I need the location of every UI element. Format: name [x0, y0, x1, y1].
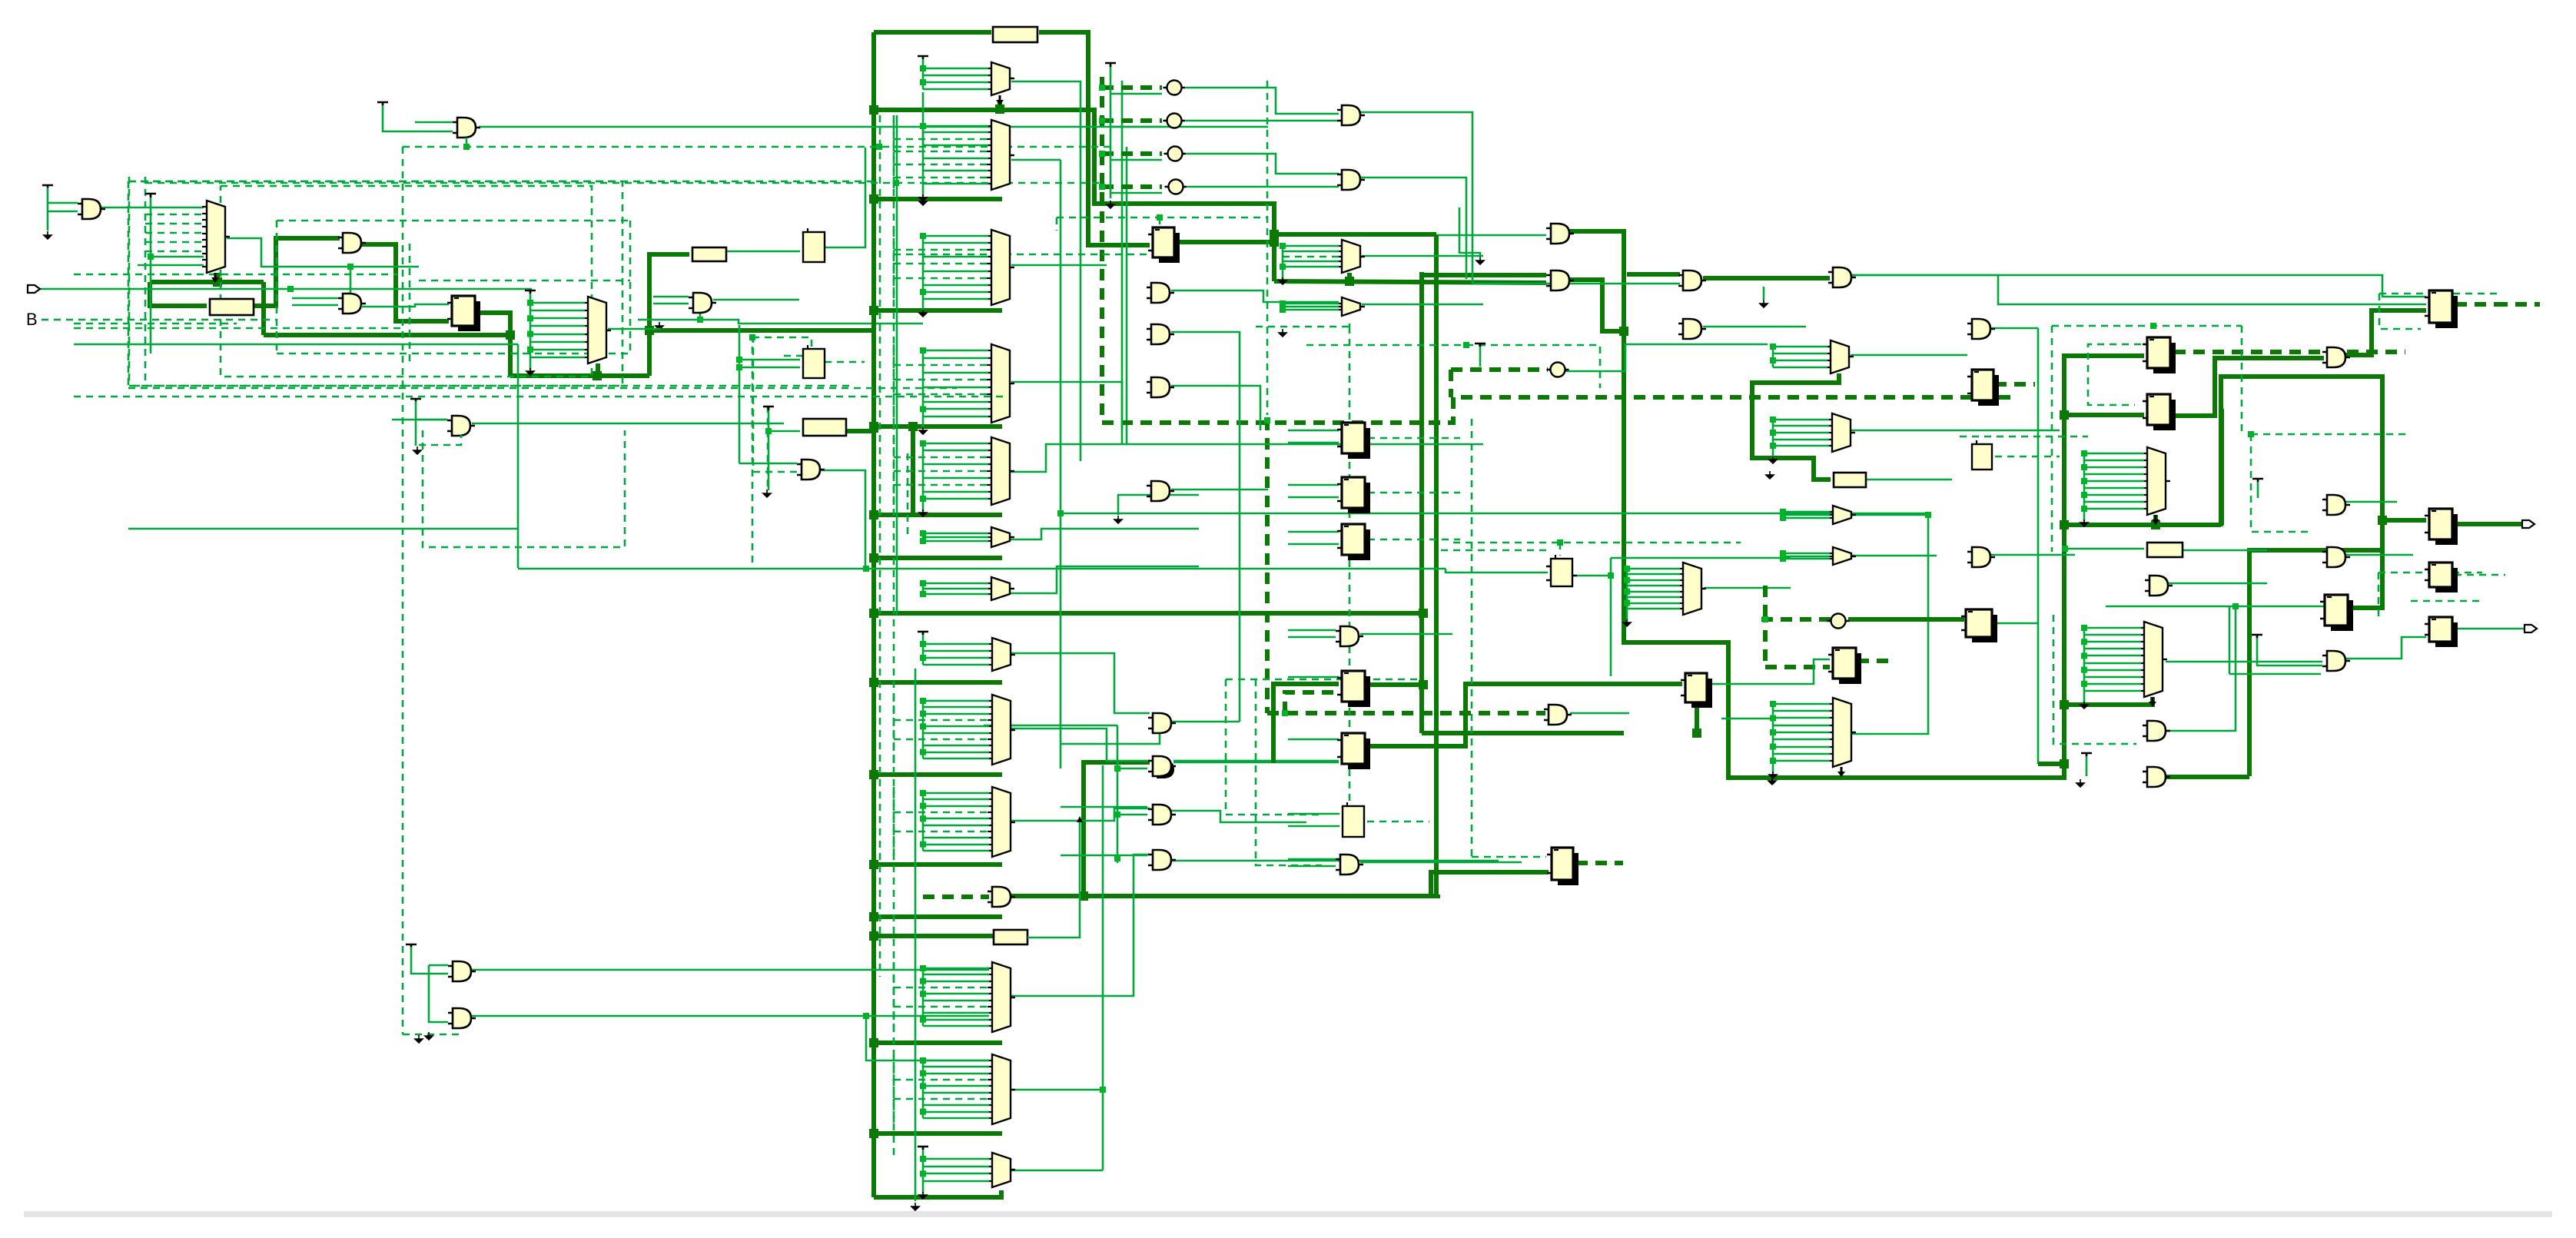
wire B4sq in2	[1288, 825, 1339, 828]
mux M21	[992, 962, 1011, 1032]
mux M14 input junction 1	[1780, 509, 1786, 515]
dashed F15 out	[1226, 679, 1420, 681]
mux M20 input stub 2	[923, 798, 989, 801]
junction spine M18	[869, 678, 878, 687]
junction M1 out drop	[347, 264, 354, 270]
mux M7 rail ground	[919, 509, 927, 516]
wire x2652 vertical	[2037, 328, 2040, 764]
dashed F6 drop	[1559, 543, 1562, 556]
bus spine branch to M4	[874, 197, 1002, 201]
mux M20 input junction 5	[920, 815, 926, 821]
mux M12 input junction 1	[1770, 344, 1776, 350]
wire G18 gnd spur	[1763, 287, 1765, 300]
buffer G2	[82, 199, 101, 219]
wire x2096	[1610, 558, 1612, 676]
mux M22 input rail	[922, 1060, 925, 1118]
dashed mid frame top	[277, 220, 630, 222]
mux M17 input stub 4	[2084, 473, 2144, 476]
mux M9 input rail	[922, 583, 925, 594]
mux M5 dashed rail	[893, 230, 895, 305]
wire y416 vert	[699, 307, 702, 320]
wire B3sq dash out	[1995, 456, 2060, 458]
bus spine branch to M6	[874, 424, 1002, 429]
mux M3 input stub 3	[923, 81, 988, 84]
dashed C5 frame	[1306, 345, 1600, 388]
wire G33 out	[1360, 861, 1522, 864]
wire y448 down	[517, 344, 520, 568]
mux M5 input stub 9	[923, 291, 988, 294]
wire M9 out	[1011, 566, 1199, 593]
mux M20 input stub 3	[923, 805, 989, 808]
mux M25 input stub 2	[2084, 634, 2141, 636]
thin G13 feed	[1360, 178, 1466, 279]
mux M6 rail ground	[919, 427, 927, 434]
wire F16 in2	[1288, 738, 1339, 741]
mux M21 input rail	[922, 968, 925, 1026]
wire x2901 vert	[2229, 606, 2231, 674]
dashed F17 in	[1472, 856, 1546, 858]
tie-high inverter rail	[1105, 63, 1116, 67]
mux M2 input stub 1	[530, 302, 585, 304]
mux M20 input junction 1	[920, 790, 926, 796]
wire M6 out	[1011, 382, 1122, 430]
bus spine bottom to M23	[874, 1190, 1001, 1197]
mux M5 input stub 3	[894, 249, 988, 251]
mux M4 rail ground	[919, 194, 927, 201]
mux M22 input stub 4	[894, 1079, 989, 1081]
bus spine branch y798 long	[874, 611, 1423, 616]
junction x1380	[1057, 510, 1064, 516]
dashed bus G25 in	[923, 894, 989, 899]
tie-high G37	[2252, 635, 2262, 639]
mux M7 input stub 9	[923, 498, 988, 500]
mux M24 input stub 8	[1773, 753, 1830, 755]
wire A4 tbar stem	[2257, 482, 2259, 498]
bus up to G27	[1084, 762, 1150, 896]
wire G14 in2 loop	[1459, 207, 1480, 256]
mux M21 dashed rail	[893, 962, 895, 1032]
mux M12 input stub 3	[1773, 360, 1827, 362]
wire G28 out	[1171, 811, 1306, 822]
wire G14 in	[1436, 234, 1546, 237]
wire F12 dash out	[2455, 574, 2505, 576]
wire G1 in2	[415, 121, 453, 124]
mux M4 input stub 5	[894, 151, 988, 153]
tie-high G5	[410, 399, 421, 403]
wire y740 long	[518, 568, 1446, 570]
wire M8 out	[1011, 529, 1199, 539]
mux M7 input stub 8	[923, 491, 988, 493]
dashed frame2	[221, 186, 592, 377]
mux M21 input stub 3	[923, 981, 989, 983]
mux M22 input stub 10	[923, 1117, 989, 1120]
dashed B2sq loop	[752, 337, 812, 356]
mux M15 input rail	[1782, 553, 1784, 559]
tie-high G30	[406, 944, 417, 948]
wire G19 out	[1990, 327, 2038, 330]
mux M25 input stub 6	[2084, 662, 2141, 665]
mux M9 input stub 3	[923, 593, 988, 596]
mux M25 input stub 4	[2084, 648, 2141, 650]
wire R7 out	[1027, 820, 1080, 938]
ground G2	[44, 231, 51, 239]
bus spine branch y141	[874, 110, 1274, 281]
junction spine y798	[869, 609, 878, 618]
wire G21 out	[2345, 501, 2397, 503]
wire M11 out	[1362, 304, 1483, 306]
mux M2	[588, 297, 606, 363]
mux M2 input stub 6	[530, 341, 585, 344]
ground M12 path	[1766, 471, 1774, 479]
junction M24 out	[1925, 512, 1931, 518]
bus x2890	[2221, 377, 2426, 526]
ground inverter rail	[1107, 201, 1114, 208]
wire x962 vertical	[739, 325, 741, 463]
bus net n1 main horizontal	[264, 333, 510, 337]
mux M4 input junction 1	[920, 123, 926, 129]
mux M17 input stub 5	[2084, 480, 2144, 483]
wire G17 out	[1703, 326, 1806, 328]
buffer G1	[457, 118, 476, 138]
junction F15 out	[1419, 680, 1428, 689]
buffer G9	[1151, 377, 1170, 397]
mux M11 input stub 3	[1283, 309, 1339, 311]
mux M3 input junction 3	[920, 79, 926, 85]
mux M25 rail ground	[2080, 702, 2088, 709]
junction spine R4	[869, 423, 878, 433]
mux M10 input junction 5	[1280, 264, 1286, 270]
bus M3 stub	[998, 102, 1002, 110]
buffer G36	[2147, 767, 2166, 787]
mux M5 input stub 8	[923, 284, 988, 287]
mux M2 rail ground	[526, 368, 534, 375]
dashed long x524	[402, 147, 404, 1034]
junction spine M21	[869, 1038, 878, 1047]
box U3	[1972, 444, 1992, 470]
bus F11 out	[2456, 522, 2522, 526]
mux M5 input stub 5	[894, 263, 988, 265]
mux M4 input stub 2	[923, 131, 988, 134]
bus spine branch to M21	[874, 1041, 1002, 1045]
wire M20 out	[1011, 808, 1150, 821]
mux M9	[991, 577, 1010, 600]
junction F6 frame	[1557, 539, 1563, 546]
wire F4 in2	[1288, 496, 1339, 499]
block R6	[2147, 543, 2183, 557]
bus branch F10 in	[2064, 413, 2144, 417]
wire G31 link	[866, 1016, 989, 1060]
wire y726	[1611, 557, 1791, 559]
mux M2 input stub 2	[530, 310, 585, 312]
dashed x2672	[2053, 615, 2136, 744]
wire G11 out	[1171, 489, 1268, 491]
wire B dashed	[41, 319, 277, 321]
dashed bus inverter tap 1	[1102, 85, 1162, 90]
mux M20 input junction 3	[920, 803, 926, 809]
mux M16 input rail	[1626, 569, 1628, 621]
mux M22	[992, 1054, 1011, 1124]
mux M4 input rail	[922, 126, 925, 196]
wire G6 in	[653, 296, 689, 298]
wire G29 out	[1171, 860, 1499, 862]
bus G15 out	[1569, 280, 1624, 331]
mux M4	[991, 120, 1010, 190]
wire G2 in2	[48, 211, 78, 213]
junction F2 out	[1270, 237, 1279, 247]
wire G26 in2	[1061, 732, 1160, 744]
bus G20 to F7	[2345, 310, 2426, 355]
mux M13 input stub 2	[1773, 425, 1829, 427]
block R2	[993, 27, 1037, 42]
mux M12	[1831, 340, 1849, 373]
buffer G17	[1683, 319, 1701, 339]
mux M17 input stub 2	[2084, 460, 2144, 462]
wire M25 out	[2166, 661, 2322, 663]
mux M17 input stub 6	[2084, 487, 2144, 490]
bus R4 out	[846, 429, 874, 433]
bus G36 out	[2166, 775, 2249, 779]
ground M10 rail	[1279, 329, 1286, 337]
wire y789 long	[2106, 606, 2325, 608]
junction x2652 tail	[2060, 759, 2069, 768]
junction dash y191	[876, 144, 882, 150]
wire x1435 vertical	[1102, 765, 1104, 1170]
box U2	[803, 349, 825, 378]
mux M24 input junction 1	[1770, 701, 1776, 707]
junction D net	[287, 286, 294, 292]
bus F1 out	[480, 313, 510, 335]
block R3	[692, 247, 726, 261]
mux M1 dashed input 2	[145, 223, 204, 225]
mux M3 input stub 2	[923, 75, 988, 77]
mux M5 input stub 1	[923, 235, 988, 237]
mux M4 input stub 7	[894, 164, 988, 166]
mux M22 input stub 3	[923, 1073, 989, 1075]
mux M18 rail tie-high	[918, 632, 928, 635]
mux M14 input stub 3	[1783, 517, 1830, 519]
mux M1 dashed input 1	[145, 214, 204, 216]
wire M24 stub long	[1721, 718, 1773, 720]
junction spine M5	[869, 306, 878, 315]
mux M24 input junction 7	[1770, 744, 1776, 750]
mux M10 input rail	[1282, 246, 1284, 279]
bus branch M25 bottom	[2064, 697, 2153, 705]
ground spine bottom	[911, 1203, 919, 1210]
wire G35 out	[2166, 606, 2236, 731]
wire G29 in1	[1061, 855, 1147, 857]
wire F14 out	[1995, 622, 2037, 625]
wire M7 out	[1011, 444, 1288, 472]
ground y644	[1114, 516, 1122, 523]
junction G1 dash	[463, 144, 470, 150]
inverter C4	[1169, 180, 1183, 194]
wire G5 in1b	[416, 419, 447, 421]
mux M11 input junction 3	[1280, 307, 1286, 313]
inverter C3	[1168, 147, 1183, 161]
tie-high C5	[1475, 344, 1486, 347]
wire C4 out	[1187, 186, 1339, 188]
bus n1 jog up	[647, 330, 652, 376]
mux M11 input junction 1	[1280, 300, 1286, 307]
wire C5 tbar drop	[1479, 347, 1482, 367]
junction x1435 M22	[1100, 1087, 1106, 1093]
mux M10 input junction 1	[1280, 243, 1286, 249]
buffer G8	[1151, 324, 1170, 344]
R7 out merge arrow	[1077, 816, 1083, 822]
mux M12 input rail	[1772, 347, 1774, 367]
wire B4sq dash out	[1367, 821, 1429, 823]
mux M8 input stub 1	[923, 533, 988, 535]
buffer G23	[2327, 547, 2345, 567]
mux M16 input junction 7	[1624, 600, 1630, 606]
junction spine M22	[869, 1129, 878, 1138]
buffer G32	[1340, 626, 1359, 646]
mux M19 input junction 1	[920, 698, 926, 704]
wire G5 in2	[392, 419, 447, 421]
mux M9 input junction 1	[920, 580, 926, 586]
mux M17	[2147, 447, 2166, 515]
bus x2652 tail	[2038, 762, 2064, 766]
mux M1 dashed input 5	[145, 251, 204, 253]
mux M19 input stub 1	[923, 700, 989, 702]
dashed frame big A1	[128, 181, 622, 386]
buffer G26	[1153, 713, 1171, 733]
bus G25 out	[1011, 894, 1084, 898]
tie-high G2	[42, 185, 53, 189]
bus G36 up to F11	[2249, 550, 2382, 776]
mux M17 input rail	[2083, 453, 2086, 521]
flip-flop F5	[1348, 529, 1370, 560]
mux M7 input stub 7	[894, 484, 988, 486]
wire M5 out	[1011, 264, 1107, 267]
ground M24 rail	[1768, 777, 1776, 785]
junction bus M25	[2060, 700, 2069, 709]
inverter rail tap	[1110, 159, 1162, 161]
wire B2sq out dashed	[825, 361, 865, 363]
wire M14 out	[1851, 514, 1928, 516]
mux M24 input stub 1	[1773, 703, 1830, 705]
wire F3 in2	[1288, 442, 1339, 444]
buffer G5	[452, 416, 470, 436]
junction spine M7	[869, 510, 878, 519]
junction bus n1/F1	[645, 326, 654, 335]
wire M1 right out	[227, 238, 419, 267]
dashed bus inverter tap 2	[1102, 118, 1162, 123]
box U1	[803, 232, 825, 262]
junction bus M2	[593, 371, 602, 380]
mux M21 input stub 7	[894, 1006, 989, 1008]
junction B2sq in1	[736, 357, 742, 363]
bus G27 to F15	[1273, 684, 1339, 763]
junction spine y141	[869, 105, 878, 115]
mux M17 input junction 9	[2081, 506, 2087, 512]
mux M21 input stub 10	[923, 1025, 989, 1027]
bus spine branch to M5	[874, 308, 1002, 313]
wire x1000 stem	[768, 410, 770, 490]
bus n1 y489	[510, 373, 649, 378]
mux M13 input stub 1	[1773, 419, 1829, 421]
mux M15	[1833, 547, 1851, 565]
mux M16 input stub 8	[1627, 608, 1680, 610]
wire G4 in	[292, 297, 338, 300]
mux M5 rail ground	[919, 310, 927, 317]
junction R6 in	[2062, 546, 2068, 552]
junction x1188	[908, 422, 918, 431]
mux M20 input stub 4	[894, 812, 989, 814]
mux M20 input rail	[922, 793, 925, 851]
mux M8 input junction 1	[920, 530, 926, 536]
dashed bus F7 out	[2455, 302, 2496, 307]
bus C6 out	[1848, 617, 1964, 622]
wire B4sq in1	[1288, 813, 1339, 815]
mux M9 input stub 2	[923, 588, 988, 590]
output pad Q2	[2525, 625, 2537, 632]
wire G37 in2	[2257, 638, 2322, 665]
bus spine branch to M19	[874, 772, 1002, 777]
wire M21 out	[1011, 855, 1150, 996]
junction G15 out	[1619, 327, 1628, 336]
inverter C5	[1551, 363, 1565, 377]
mux M6 input stub 4	[923, 372, 988, 374]
wire G2 in	[48, 202, 78, 204]
mux M10 rail ground	[1279, 277, 1286, 284]
inverter C6	[1831, 614, 1846, 629]
junction M17 out	[2151, 520, 2160, 529]
dashed frame right lower	[2251, 434, 2313, 532]
mux M22 dashed rail	[893, 1054, 895, 1124]
mux M17 input junction 1	[2081, 450, 2087, 456]
dashed x1634	[1256, 679, 1322, 865]
bus spine vertical	[871, 32, 876, 1197]
wire M15 out	[1851, 555, 1937, 557]
dashed frame M2	[423, 430, 625, 547]
mux M4 input stub 6	[923, 158, 988, 160]
junction M1 in8	[148, 254, 154, 260]
mux M6 input junction 9	[920, 406, 926, 412]
mux M15 input junction 3	[1780, 556, 1786, 562]
dashed y425	[1256, 326, 1349, 328]
dashed bus C5 in	[1451, 367, 1548, 372]
mux M25 input junction 3	[2081, 639, 2087, 645]
dashed frame A4 left	[2051, 326, 2053, 552]
wire B2sq in2	[739, 367, 800, 369]
mux M5 input stub 6	[923, 271, 988, 273]
bus F2 out	[1179, 240, 1274, 244]
mux M20 input stub 8	[923, 837, 989, 839]
wire B1sq out	[825, 148, 865, 247]
mux M5 input stub 2	[923, 242, 988, 244]
dashed F2 loop left	[1056, 217, 1058, 231]
mux M23 input stub 4	[923, 1180, 989, 1183]
dashed frame F7 a	[2379, 293, 2498, 295]
mux M8 input stub 3	[923, 540, 988, 543]
ground G31	[425, 1032, 433, 1040]
wire R5 out	[1867, 479, 1952, 481]
wire F4 in1	[1288, 484, 1339, 486]
buffer G12	[1342, 105, 1360, 125]
mux M18 input rail	[922, 633, 925, 665]
mux M25 input stub 3	[2084, 641, 2141, 643]
mux M22 input stub 7	[894, 1098, 989, 1100]
flip-flop F10	[2153, 400, 2176, 430]
wire M22 out	[1011, 1089, 1103, 1091]
buffer G22	[1972, 547, 1990, 567]
ground B1 dashed	[415, 1035, 423, 1043]
wire G18 out thin	[1851, 275, 2426, 304]
dashed x1649 thin	[1266, 81, 1269, 415]
mux M17 input junction 3	[2081, 464, 2087, 470]
mux M20 input stub 5	[923, 818, 989, 820]
